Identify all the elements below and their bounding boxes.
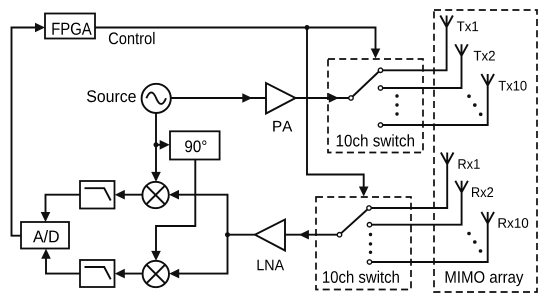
wire: filter 1 to A/D	[46, 195, 81, 214]
wire: FPGA control out to Tx switch	[95, 28, 376, 51]
Rx switch throw contact 2	[367, 223, 371, 227]
junction: LO tap node	[154, 142, 159, 147]
wire+antenna Rx10	[372, 212, 494, 262]
90 deg label	[185, 140, 206, 152]
Tx switch pole contact	[349, 96, 353, 100]
wire+antenna Tx1	[383, 16, 453, 71]
FPGA label	[52, 23, 91, 35]
wire: tap to 90 deg shifter	[156, 144, 161, 146]
FPGA block	[45, 14, 95, 39]
Rx1 label	[459, 159, 480, 169]
junction: RF split node	[225, 232, 230, 237]
wire: junction up to mixer 1 RF input	[178, 195, 228, 235]
10ch switch dashed box (Rx)	[316, 197, 411, 290]
Rx switch ellipsis dots	[369, 233, 372, 254]
wire: PA to Tx switch pole	[296, 97, 349, 99]
Rx switch throw contact 1	[367, 206, 371, 210]
arrowhead on switch-LNA wire	[299, 230, 309, 240]
wire+antenna Rx2	[372, 181, 468, 225]
Tx switch throw contact 1	[378, 68, 382, 72]
wire: Rx switch pole to LNA	[285, 234, 337, 236]
Source label	[87, 90, 136, 102]
Tx switch arm	[351, 70, 381, 98]
wire: mixer 1 out to filter 1	[123, 194, 142, 196]
Tx switch throw contact 2	[378, 86, 382, 90]
filter F2 response glyph	[85, 267, 111, 279]
Rx2 label	[472, 187, 493, 197]
wire: mixer 2 out to filter 2	[123, 273, 143, 275]
arrowhead into mixer 1 top	[151, 172, 161, 182]
wire: A/D output feedback to FPGA input	[12, 28, 38, 236]
Tx1 label	[457, 22, 478, 32]
wire: control branch to Rx switch	[307, 28, 364, 189]
arrowhead into mixer 1 right	[169, 190, 179, 200]
wire: source down to mixer 1	[155, 113, 157, 174]
Tx2 label	[474, 51, 495, 61]
LNA amplifier triangle	[255, 220, 285, 251]
LNA label	[258, 260, 285, 271]
Rx10 label	[499, 218, 529, 228]
Rx switch throw contact 10	[367, 260, 371, 264]
source sine wave	[146, 92, 166, 104]
low-pass filter F2 box	[80, 260, 115, 287]
Tx10 label	[499, 81, 527, 91]
wire: junction down to mixer 2 RF input	[178, 235, 228, 274]
10ch switch label (Rx)	[323, 271, 399, 283]
wire+antenna Tx10	[383, 74, 494, 125]
wire: filter 2 to A/D	[46, 257, 80, 274]
A/D label	[33, 230, 59, 243]
Rx switch pole contact	[337, 233, 341, 237]
arrowhead into mixer 2 top	[151, 251, 161, 261]
arrowhead into 90 deg shifter	[160, 140, 170, 150]
junction: control branch node	[305, 25, 310, 30]
arrowhead into Tx switch box	[371, 49, 381, 59]
MIMO ellipsis dots (Tx)	[467, 94, 482, 116]
Tx switch ellipsis dots	[395, 94, 398, 115]
arrowhead into A/D bottom	[41, 249, 51, 259]
arrowhead into FPGA	[35, 23, 45, 33]
PA amplifier triangle	[266, 83, 296, 114]
MIMO ellipsis dots (Rx)	[467, 232, 482, 253]
Tx switch throw contact 10	[378, 123, 382, 127]
Rx switch arm	[340, 208, 370, 235]
source oscillator circle	[142, 84, 171, 113]
PA label	[273, 121, 292, 132]
arrowhead into mixer 2 right	[169, 269, 179, 279]
A/D converter block	[21, 222, 69, 249]
arrowhead into Rx switch box	[359, 187, 369, 197]
wire: LNA out to IF junction	[228, 234, 256, 236]
arrowhead on source-PA wire	[242, 93, 252, 103]
MIMO array dashed box	[434, 10, 537, 292]
arrowhead into filter 2	[115, 269, 125, 279]
phase shifter 90 box	[170, 131, 220, 159]
filter F1 response glyph	[85, 188, 111, 200]
wire+antenna Tx2	[383, 44, 468, 88]
Control net label	[109, 32, 155, 44]
low-pass filter F1 box	[80, 181, 115, 209]
arrowhead into filter 1	[115, 190, 125, 200]
wire: source to PA	[171, 97, 266, 99]
arrowhead on PA-switch wire	[329, 93, 339, 103]
MIMO array label	[446, 271, 524, 286]
10ch switch dashed box (Tx)	[328, 59, 423, 153]
mixer M1	[142, 182, 168, 208]
wire: 90 deg out to mixer 2	[156, 160, 195, 253]
arrowhead into A/D top	[41, 212, 51, 222]
10ch switch label (Tx)	[337, 134, 414, 146]
mixer M2	[143, 261, 169, 287]
wire+antenna Rx1	[371, 153, 453, 209]
